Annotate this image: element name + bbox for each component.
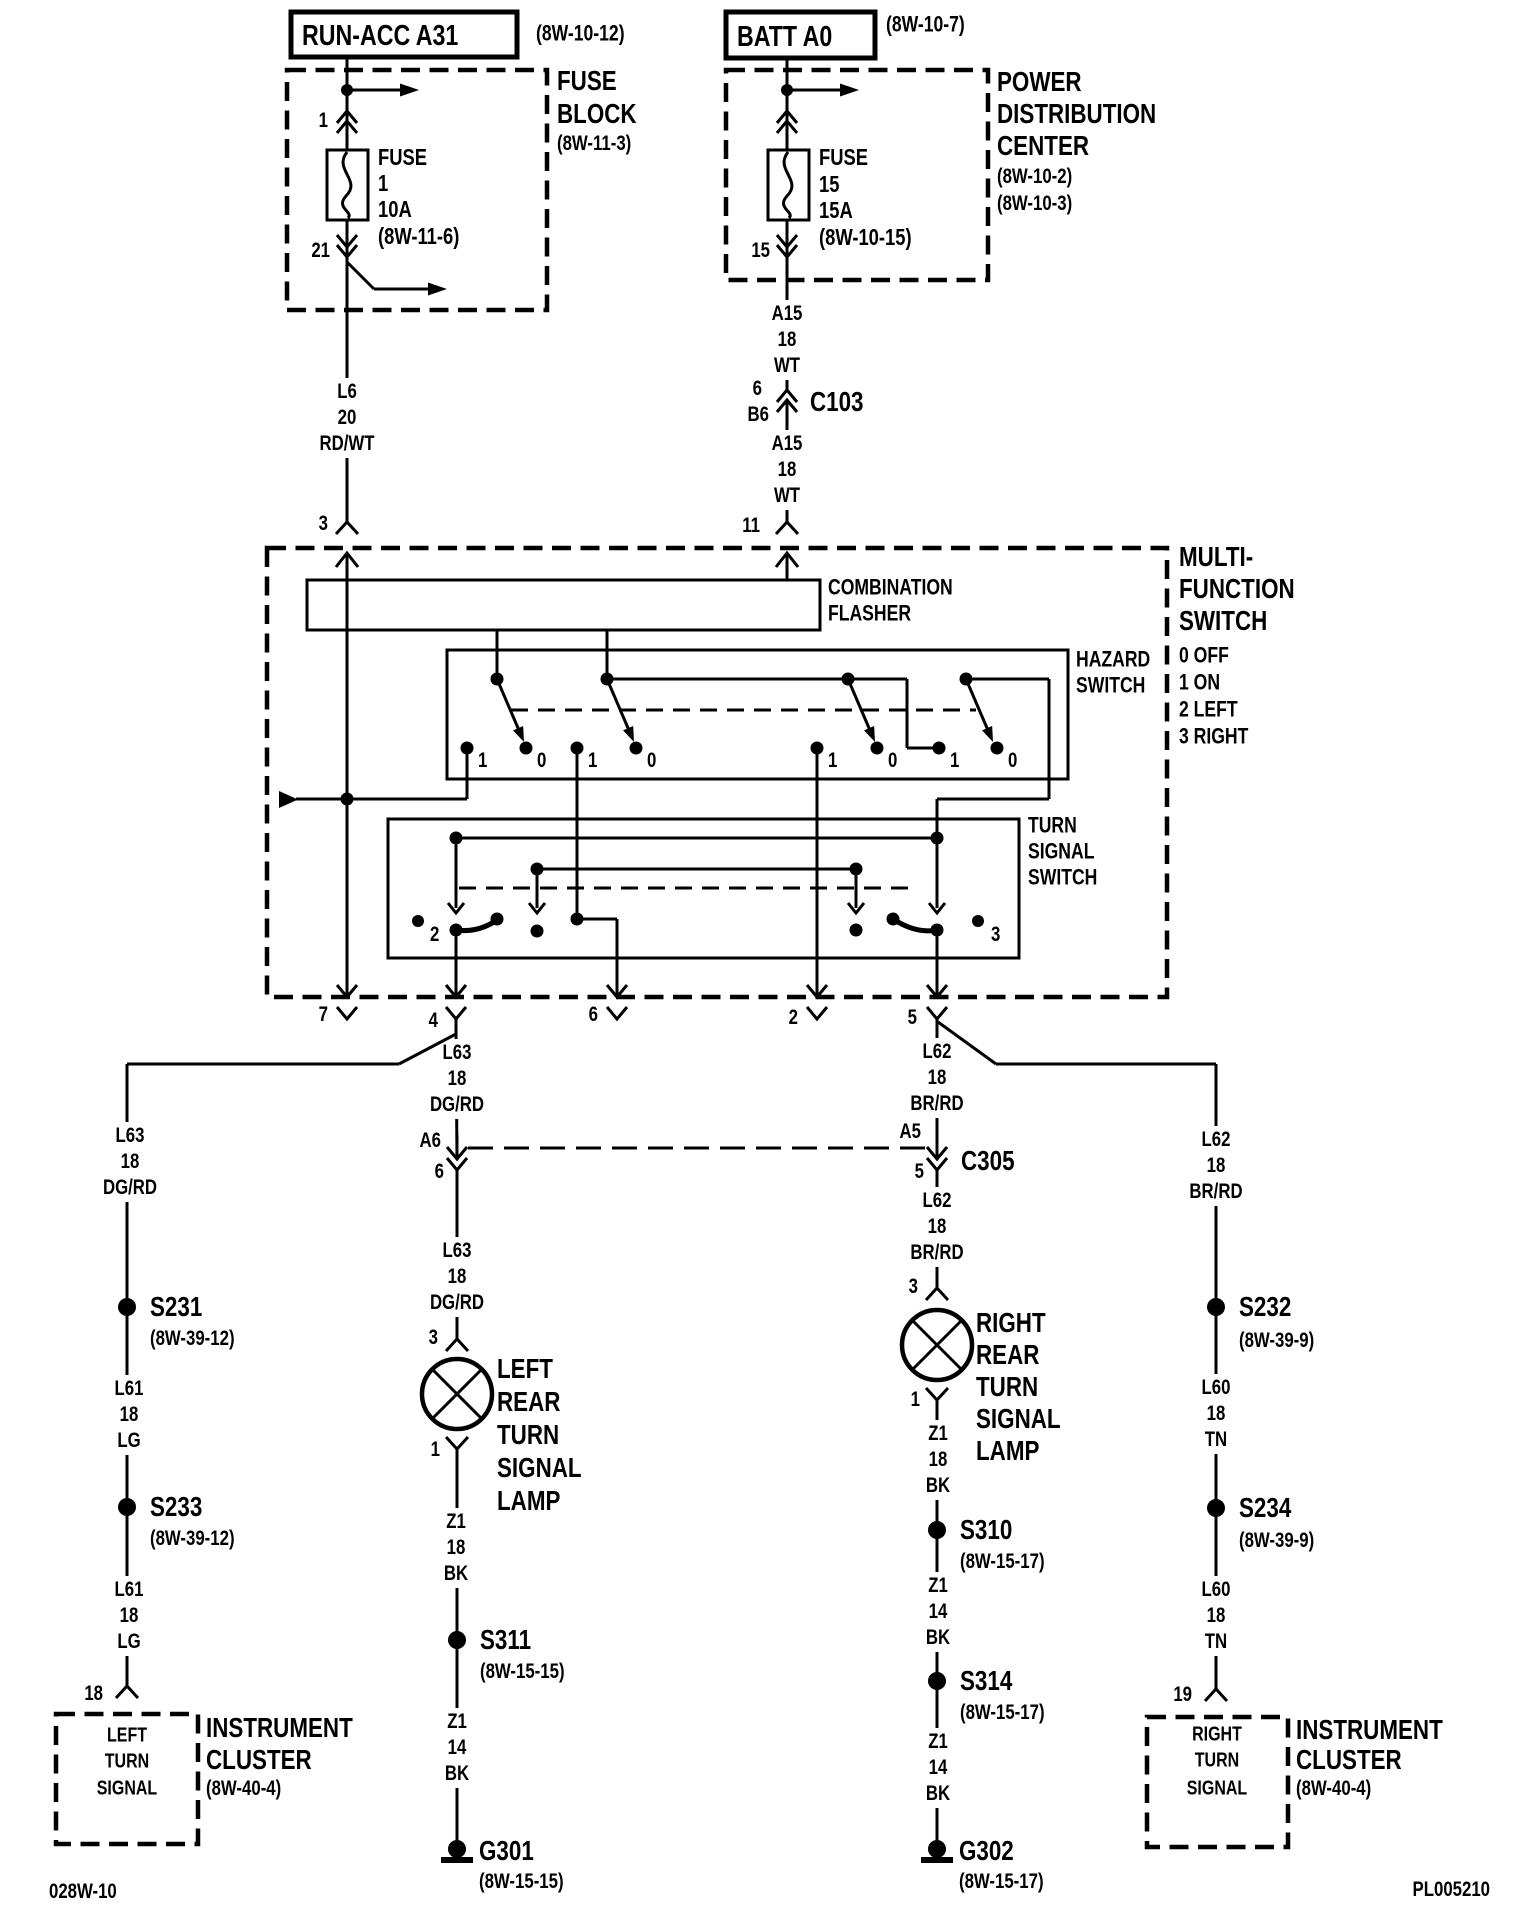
connector C305 pin A5 — [900, 1120, 1015, 1183]
wire label L63 18 DG/RD at lamp — [425, 1237, 489, 1317]
svg-text:2: 2 — [789, 1006, 798, 1029]
svg-text:1: 1 — [478, 749, 488, 772]
svg-text:1: 1 — [431, 1438, 441, 1461]
power distribution center label — [997, 67, 1156, 216]
feed continuation arrow — [347, 84, 419, 97]
svg-text:BR/RD: BR/RD — [910, 1092, 963, 1115]
right instrument cluster label — [1296, 1715, 1443, 1801]
turn signal pin 6 contact and elbow — [571, 913, 618, 996]
fuse block label — [557, 66, 637, 156]
wire label L61 18 LG lower — [108, 1576, 149, 1656]
svg-text:CENTER: CENTER — [997, 131, 1089, 162]
svg-text:(8W-11-6): (8W-11-6) — [378, 224, 459, 249]
turn signal mid-right arrow and contact — [848, 869, 864, 937]
multi-function switch dashed box — [267, 548, 1167, 997]
wire label Z1 18 BK right — [923, 1420, 953, 1500]
reference (8W-10-12) — [536, 22, 625, 46]
connector C305 dashed link — [468, 1147, 927, 1150]
pin 6 border connector — [589, 985, 627, 1027]
svg-text:(8W-40-4): (8W-40-4) — [206, 1777, 281, 1800]
turn signal position dot 2 — [412, 915, 439, 947]
hazard pole 1 common — [491, 673, 504, 686]
sheet number 028W-10 — [49, 1880, 117, 1903]
svg-text:18: 18 — [1207, 1604, 1226, 1627]
left instrument cluster label — [206, 1713, 353, 1801]
right cluster pin 19 terminal — [1173, 1683, 1227, 1706]
svg-text:WT: WT — [774, 484, 800, 507]
splice S234 — [1207, 1493, 1314, 1553]
left lamp pin 1 terminal — [431, 1437, 468, 1467]
svg-text:INSTRUMENT: INSTRUMENT — [1296, 1715, 1443, 1746]
svg-text:0: 0 — [1008, 749, 1017, 772]
branch wire to left instrument cluster — [127, 1034, 456, 1686]
svg-text:MULTI-: MULTI- — [1179, 542, 1253, 573]
left rear turn signal lamp label — [497, 1354, 582, 1517]
svg-text:1: 1 — [378, 171, 388, 196]
svg-text:Z1: Z1 — [928, 1574, 948, 1597]
svg-text:(8W-39-12): (8W-39-12) — [150, 1527, 235, 1550]
right lamp pin 1 terminal — [911, 1388, 948, 1415]
flasher output wire to hazard pole 1 — [496, 630, 499, 679]
pin 7 border connector — [319, 985, 357, 1027]
turn signal right pole contact — [931, 924, 944, 937]
svg-text:18: 18 — [121, 1150, 140, 1173]
svg-text:BR/RD: BR/RD — [910, 1241, 963, 1264]
svg-text:3 RIGHT: 3 RIGHT — [1179, 725, 1248, 749]
svg-text:L62: L62 — [923, 1189, 952, 1212]
svg-text:7: 7 — [319, 1003, 328, 1026]
splice S311 — [448, 1625, 565, 1684]
hazard switch box — [447, 650, 1068, 779]
svg-text:1: 1 — [950, 749, 960, 772]
svg-text:FLASHER: FLASHER — [828, 602, 911, 626]
wire label Z1 14 BK right upper — [923, 1572, 953, 1652]
wire label A15 18 WT upper — [766, 300, 807, 380]
svg-text:S314: S314 — [960, 1666, 1012, 1697]
svg-text:TN: TN — [1205, 1428, 1227, 1451]
svg-text:S233: S233 — [150, 1492, 202, 1523]
svg-text:RIGHT: RIGHT — [976, 1308, 1046, 1339]
turn signal neutral dashed line — [459, 887, 916, 890]
svg-text:L6: L6 — [337, 380, 357, 403]
multi-function switch label — [1179, 542, 1295, 750]
pin 3 border connector — [319, 512, 358, 580]
left instrument cluster dashed box — [56, 1714, 198, 1844]
svg-text:2 LEFT: 2 LEFT — [1179, 698, 1238, 722]
wire below fuse F1 (circuit L6) — [346, 220, 349, 522]
wire label A15 18 WT lower — [766, 430, 807, 510]
turn signal left blade — [456, 913, 504, 931]
combination flasher label — [828, 576, 953, 626]
svg-text:2: 2 — [430, 923, 439, 946]
svg-text:TURN: TURN — [105, 1750, 149, 1772]
svg-text:LG: LG — [117, 1429, 140, 1452]
svg-text:S232: S232 — [1239, 1292, 1291, 1323]
svg-text:BK: BK — [444, 1562, 468, 1585]
svg-text:TURN: TURN — [497, 1420, 559, 1451]
svg-text:TURN: TURN — [976, 1372, 1038, 1403]
svg-text:INSTRUMENT: INSTRUMENT — [206, 1713, 353, 1744]
svg-text:REAR: REAR — [497, 1387, 560, 1418]
svg-text:6: 6 — [589, 1003, 598, 1026]
hazard switch label — [1076, 648, 1150, 698]
svg-text:A15: A15 — [772, 302, 803, 325]
splice S233 — [118, 1492, 235, 1551]
svg-text:(8W-10-15): (8W-10-15) — [819, 225, 912, 250]
splice S232 — [1207, 1292, 1314, 1353]
turn signal left common arrow — [448, 838, 464, 913]
drawing number PL005210 — [1413, 1878, 1490, 1901]
fuse block pin 21 connector chevrons — [311, 235, 357, 263]
svg-text:FUNCTION: FUNCTION — [1179, 574, 1295, 605]
svg-text:1 ON: 1 ON — [1179, 671, 1220, 695]
svg-text:DG/RD: DG/RD — [430, 1093, 484, 1116]
svg-text:18: 18 — [928, 1066, 947, 1089]
svg-text:S310: S310 — [960, 1515, 1012, 1546]
svg-text:6: 6 — [753, 377, 762, 400]
svg-text:(8W-39-12): (8W-39-12) — [150, 1327, 235, 1350]
node on batt wire — [781, 84, 793, 96]
wire label Z1 14 BK left — [442, 1708, 472, 1788]
hazard blade 4 — [966, 679, 993, 742]
svg-text:BK: BK — [926, 1474, 950, 1497]
turn signal right blade — [887, 913, 938, 931]
turn signal left pole contact — [450, 924, 463, 937]
hazard blade 2 — [607, 679, 634, 742]
hazard pole 4 common — [960, 673, 973, 686]
svg-text:15: 15 — [751, 239, 770, 262]
svg-text:LAMP: LAMP — [976, 1436, 1040, 1467]
turn signal position dot 3 — [972, 915, 1000, 947]
svg-text:L63: L63 — [116, 1124, 145, 1147]
svg-text:LEFT: LEFT — [107, 1724, 147, 1746]
svg-text:1: 1 — [828, 749, 838, 772]
svg-text:10A: 10A — [378, 197, 412, 222]
ground G302 — [921, 1836, 1044, 1894]
junction on left feed wire — [341, 793, 354, 806]
svg-text:18: 18 — [929, 1448, 948, 1471]
svg-text:18: 18 — [1207, 1402, 1226, 1425]
svg-text:0 OFF: 0 OFF — [1179, 644, 1229, 668]
svg-text:19: 19 — [1173, 1683, 1192, 1706]
svg-text:18: 18 — [120, 1604, 139, 1627]
svg-text:4: 4 — [429, 1009, 439, 1032]
wire pin 5 output — [936, 930, 939, 995]
svg-text:RIGHT: RIGHT — [1192, 1723, 1242, 1745]
fuse F15 15A — [768, 145, 912, 250]
svg-text:FUSE: FUSE — [557, 66, 617, 97]
branch arrow inside fuse block — [347, 262, 447, 296]
svg-text:(8W-39-9): (8W-39-9) — [1239, 1329, 1314, 1352]
svg-text:TURN: TURN — [1195, 1749, 1239, 1771]
svg-text:(8W-11-3): (8W-11-3) — [557, 132, 631, 155]
svg-text:SIGNAL: SIGNAL — [976, 1404, 1061, 1435]
wire hazard pole3 contact 1 down to pin 2 — [816, 748, 819, 995]
PDC pin connector chevrons — [777, 111, 797, 133]
svg-text:18: 18 — [448, 1265, 467, 1288]
wire A6 to lamp — [456, 1170, 459, 1339]
svg-text:DG/RD: DG/RD — [103, 1176, 157, 1199]
svg-text:0: 0 — [647, 749, 656, 772]
ground G301 — [441, 1836, 564, 1894]
hazard pole 3 contacts 1 and 0 — [811, 742, 898, 773]
svg-text:(8W-10-3): (8W-10-3) — [997, 192, 1072, 215]
hazard pole 3 common — [842, 673, 855, 686]
svg-text:(8W-10-12): (8W-10-12) — [536, 22, 625, 46]
svg-text:6: 6 — [435, 1160, 444, 1183]
splice S310 — [928, 1515, 1045, 1574]
svg-text:18: 18 — [84, 1682, 103, 1705]
wire lamp to ground G301 (Z1) — [456, 1467, 459, 1840]
svg-text:FUSE: FUSE — [819, 145, 868, 170]
svg-text:G301: G301 — [479, 1836, 534, 1867]
left feed wire through flasher to pin 7 — [346, 580, 349, 995]
svg-text:LAMP: LAMP — [497, 1486, 561, 1517]
svg-text:RD/WT: RD/WT — [319, 432, 374, 455]
svg-text:14: 14 — [448, 1736, 467, 1759]
turn signal mid rail — [531, 863, 863, 876]
wire label L63 18 DG/RD left branch — [98, 1122, 162, 1202]
svg-text:TN: TN — [1205, 1630, 1227, 1653]
svg-text:Z1: Z1 — [446, 1510, 466, 1533]
wire pin 4 output — [455, 930, 458, 995]
svg-text:15: 15 — [819, 172, 839, 197]
connector C305 pin A6 — [420, 1129, 467, 1183]
turn signal right common arrow — [929, 838, 945, 913]
svg-text:Z1: Z1 — [928, 1422, 948, 1445]
svg-text:DG/RD: DG/RD — [430, 1291, 484, 1314]
svg-text:1: 1 — [588, 749, 598, 772]
svg-text:TURN: TURN — [1028, 814, 1077, 838]
node on feed wire — [341, 84, 353, 96]
left turn signal indicator label — [97, 1724, 157, 1799]
svg-text:L62: L62 — [1202, 1128, 1231, 1151]
svg-text:B6: B6 — [748, 403, 769, 426]
svg-text:C305: C305 — [961, 1146, 1015, 1177]
svg-text:COMBINATION: COMBINATION — [828, 576, 953, 600]
turn signal switch box — [388, 819, 1019, 958]
svg-text:18: 18 — [447, 1536, 466, 1559]
wire label L60 18 TN upper — [1195, 1374, 1236, 1454]
hazard switch neutral dashed line — [511, 709, 976, 712]
wire label Z1 18 BK left — [441, 1508, 471, 1588]
left lamp pin 3 terminal — [429, 1326, 468, 1351]
svg-text:HAZARD: HAZARD — [1076, 648, 1150, 672]
batt feed continuation arrow — [787, 84, 859, 97]
wire from BATT into PDC — [786, 58, 789, 150]
wire pole2 common to pole3 common to pole4 contact 1 — [607, 679, 939, 748]
svg-text:FUSE: FUSE — [378, 145, 427, 170]
svg-text:BLOCK: BLOCK — [557, 99, 637, 130]
svg-text:20: 20 — [338, 406, 357, 429]
svg-text:S231: S231 — [150, 1292, 202, 1323]
svg-text:L63: L63 — [443, 1041, 472, 1064]
left cluster pin 18 terminal — [84, 1682, 138, 1705]
right instrument cluster dashed box — [1147, 1717, 1288, 1847]
wire from RUN-ACC into fuse block — [346, 57, 349, 150]
wire hazard contact 1-1 to feed junction — [296, 748, 467, 799]
svg-text:3: 3 — [991, 923, 1000, 946]
combination flasher box — [307, 580, 820, 630]
wire label L62 18 BR/RD at lamp — [905, 1187, 969, 1267]
right rear turn signal lamp — [902, 1310, 972, 1380]
wire label L60 18 TN lower — [1195, 1576, 1236, 1656]
svg-text:L61: L61 — [115, 1578, 144, 1601]
svg-text:SIGNAL: SIGNAL — [1187, 1777, 1247, 1799]
svg-text:(8W-15-15): (8W-15-15) — [479, 1870, 564, 1893]
splice S314 — [928, 1666, 1045, 1725]
svg-text:S234: S234 — [1239, 1493, 1291, 1524]
right rear turn signal lamp label — [976, 1308, 1061, 1467]
svg-text:(8W-15-17): (8W-15-17) — [959, 1870, 1044, 1893]
PDC pin 15 connector chevrons — [751, 235, 797, 263]
hazard pole 2 contacts 1 and 0 — [571, 742, 657, 773]
wire label L62 18 BR/RD branch top — [905, 1038, 969, 1118]
svg-text:(8W-15-17): (8W-15-17) — [960, 1550, 1045, 1573]
svg-text:POWER: POWER — [997, 67, 1082, 98]
svg-text:18: 18 — [928, 1215, 947, 1238]
svg-text:BATT A0: BATT A0 — [737, 19, 832, 52]
svg-text:C103: C103 — [810, 387, 864, 418]
pin 2 border connector — [789, 985, 827, 1030]
turn signal common rail — [450, 832, 944, 845]
svg-text:CLUSTER: CLUSTER — [206, 1745, 312, 1776]
hazard pole 1 contacts 1 and 0 — [461, 742, 547, 773]
svg-text:(8W-10-7): (8W-10-7) — [886, 13, 965, 37]
svg-text:BK: BK — [926, 1782, 950, 1805]
svg-text:A5: A5 — [900, 1120, 922, 1143]
svg-text:18: 18 — [1207, 1154, 1226, 1177]
svg-text:SIGNAL: SIGNAL — [97, 1777, 157, 1799]
svg-text:1: 1 — [319, 109, 329, 132]
svg-text:BK: BK — [926, 1626, 950, 1649]
svg-text:L62: L62 — [923, 1040, 952, 1063]
wire pin 4 to left rear lamp (L63) — [456, 1034, 457, 1159]
svg-text:18: 18 — [120, 1403, 139, 1426]
wire label L62 18 BR/RD right branch — [1184, 1126, 1248, 1206]
wire pole4 common to turn signal common — [937, 679, 1049, 838]
svg-text:0: 0 — [888, 749, 897, 772]
power distribution center dashed box — [726, 70, 988, 280]
svg-text:5: 5 — [908, 1006, 918, 1029]
svg-text:SWITCH: SWITCH — [1179, 606, 1267, 637]
left rear turn signal lamp — [422, 1359, 492, 1429]
hazard blade 1 — [497, 679, 524, 742]
svg-text:G302: G302 — [959, 1836, 1014, 1867]
wire label Z1 14 BK right lower — [923, 1728, 953, 1808]
fuse block pin 1 connector chevrons — [319, 109, 357, 133]
svg-text:L61: L61 — [115, 1377, 144, 1400]
svg-text:SWITCH: SWITCH — [1076, 674, 1145, 698]
svg-text:14: 14 — [929, 1756, 948, 1779]
svg-text:3: 3 — [429, 1326, 438, 1349]
hazard pole 2 common — [601, 673, 614, 686]
feed junction arrow — [279, 791, 298, 808]
power feed box BATT A0 — [726, 12, 875, 58]
svg-text:L63: L63 — [443, 1239, 472, 1262]
svg-text:Z1: Z1 — [928, 1730, 948, 1753]
svg-text:PL005210: PL005210 — [1413, 1878, 1490, 1901]
svg-text:18: 18 — [778, 458, 797, 481]
svg-text:1: 1 — [911, 1388, 921, 1411]
svg-text:S311: S311 — [480, 1625, 531, 1656]
svg-text:3: 3 — [319, 512, 328, 535]
svg-text:(8W-39-9): (8W-39-9) — [1239, 1529, 1314, 1552]
svg-text:(8W-10-2): (8W-10-2) — [997, 165, 1072, 188]
fuse F1 10A — [327, 145, 459, 249]
svg-text:A6: A6 — [420, 1129, 441, 1152]
svg-text:SIGNAL: SIGNAL — [497, 1453, 582, 1484]
pin 5 border connector — [908, 985, 947, 1034]
svg-text:CLUSTER: CLUSTER — [1296, 1745, 1402, 1776]
svg-text:DISTRIBUTION: DISTRIBUTION — [997, 99, 1156, 130]
wire A5 to lamp — [936, 1170, 939, 1288]
svg-text:RUN-ACC A31: RUN-ACC A31 — [302, 18, 458, 51]
branch wire to right instrument cluster — [938, 1022, 1216, 1689]
svg-text:Z1: Z1 — [447, 1710, 467, 1733]
svg-text:14: 14 — [929, 1600, 948, 1623]
svg-text:SWITCH: SWITCH — [1028, 866, 1097, 890]
svg-text:21: 21 — [311, 239, 330, 262]
wire label L61 18 LG upper — [108, 1375, 149, 1455]
svg-text:(8W-15-15): (8W-15-15) — [480, 1660, 565, 1683]
svg-text:3: 3 — [909, 1275, 918, 1298]
hazard pole 4 contacts 1 and 0 — [933, 742, 1018, 773]
wire A15 below C103 — [786, 424, 789, 522]
svg-text:L60: L60 — [1202, 1578, 1231, 1601]
svg-text:(8W-40-4): (8W-40-4) — [1296, 1777, 1371, 1800]
svg-text:BR/RD: BR/RD — [1189, 1180, 1242, 1203]
wire lamp to ground G302 (Z1) — [936, 1415, 939, 1840]
pin 11 border connector — [742, 514, 798, 580]
svg-text:REAR: REAR — [976, 1340, 1039, 1371]
wire hazard pole2 contact 1 down to turn signal switch — [576, 748, 579, 919]
svg-text:WT: WT — [774, 354, 800, 377]
wire below fuse F15 (circuit A15) — [786, 220, 789, 390]
wire pin 5 to right rear lamp (L62) — [936, 1034, 939, 1159]
svg-text:18: 18 — [778, 328, 797, 351]
reference (8W-10-7) — [886, 13, 965, 37]
svg-text:11: 11 — [742, 514, 760, 537]
hazard blade 3 — [848, 679, 875, 742]
svg-text:LEFT: LEFT — [497, 1354, 553, 1385]
right lamp pin 3 terminal — [909, 1275, 948, 1300]
splice S231 — [118, 1292, 235, 1351]
flasher output wire to hazard pole 2 — [606, 630, 609, 679]
svg-text:A15: A15 — [772, 432, 803, 455]
svg-text:0: 0 — [537, 749, 546, 772]
pin 4 border connector — [429, 985, 466, 1034]
svg-text:L60: L60 — [1202, 1376, 1231, 1399]
svg-text:18: 18 — [448, 1067, 467, 1090]
right turn signal indicator label — [1187, 1723, 1247, 1799]
turn signal switch label — [1028, 814, 1097, 890]
svg-text:SIGNAL: SIGNAL — [1028, 840, 1094, 864]
svg-text:(8W-15-17): (8W-15-17) — [960, 1701, 1045, 1724]
wire label L6 20 RD/WT — [315, 378, 379, 458]
svg-text:5: 5 — [915, 1160, 925, 1183]
svg-text:15A: 15A — [819, 198, 853, 223]
power feed box RUN-ACC A31 — [291, 12, 517, 57]
connector C103 — [748, 377, 864, 426]
svg-text:LG: LG — [117, 1630, 140, 1653]
wire label L63 18 DG/RD branch top — [425, 1039, 489, 1119]
fuse block dashed box — [287, 70, 547, 310]
svg-text:BK: BK — [445, 1762, 469, 1785]
turn signal mid-left arrow and contact — [529, 869, 545, 938]
svg-text:028W-10: 028W-10 — [49, 1880, 117, 1903]
